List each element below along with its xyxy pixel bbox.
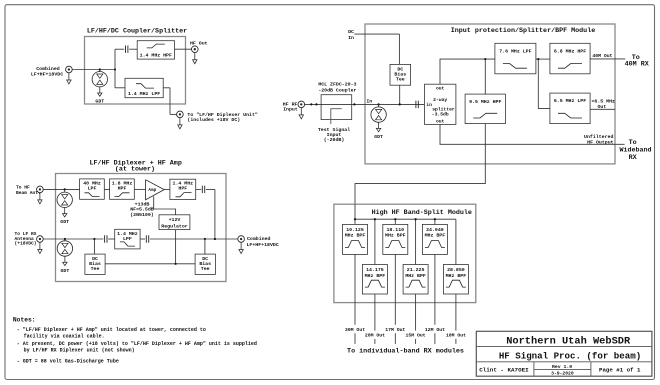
- svg-text:-20dB Coupler: -20dB Coupler: [318, 88, 356, 94]
- svg-text:NF=5.5dB: NF=5.5dB: [130, 207, 154, 213]
- svg-text:LF+HF+18VDC: LF+HF+18VDC: [247, 242, 279, 248]
- svg-text:Input: Input: [283, 106, 298, 112]
- svg-text:6.5 MHz LPF: 6.5 MHz LPF: [554, 98, 586, 104]
- svg-text:GDT: GDT: [60, 219, 69, 225]
- svg-text:out: out: [436, 85, 445, 91]
- svg-text:Unfiltered: Unfiltered: [584, 134, 613, 140]
- svg-text:MHz BPF: MHz BPF: [365, 273, 386, 279]
- svg-text:+12V: +12V: [169, 217, 181, 223]
- svg-text:Rev 1.0: Rev 1.0: [552, 364, 572, 370]
- svg-text:facility via coaxial cable.: facility via coaxial cable.: [24, 334, 105, 340]
- svg-text:HF Out: HF Out: [190, 40, 208, 46]
- svg-text:To individual-band RX modules: To individual-band RX modules: [347, 348, 464, 356]
- svg-text:RX: RX: [629, 154, 638, 162]
- svg-text:Amp: Amp: [148, 188, 156, 193]
- svg-text:(includes +18V DC): (includes +18V DC): [187, 117, 240, 123]
- svg-text:Combined: Combined: [36, 66, 60, 72]
- svg-text:LPF: LPF: [123, 236, 132, 242]
- svg-text:+13dB: +13dB: [135, 201, 150, 207]
- svg-text:21.225: 21.225: [407, 267, 425, 273]
- svg-text:out: out: [436, 119, 445, 125]
- svg-text:Combined: Combined: [247, 236, 271, 242]
- svg-text:7.6 MHz LPF: 7.6 MHz LPF: [499, 48, 531, 54]
- svg-text:Tee: Tee: [201, 266, 210, 272]
- svg-text:Input protection/Splitter/BPF: Input protection/Splitter/BPF Module: [451, 27, 595, 35]
- svg-text:Tee: Tee: [396, 76, 405, 82]
- svg-text:MHz BPF: MHz BPF: [405, 273, 426, 279]
- svg-text:In: In: [366, 99, 372, 105]
- svg-text:(2N5109): (2N5109): [130, 212, 154, 218]
- svg-text:(at tower): (at tower): [115, 166, 155, 174]
- svg-text:MHz BPF: MHz BPF: [446, 273, 467, 279]
- svg-text:Regulator: Regulator: [161, 223, 187, 229]
- svg-text:-3.5db: -3.5db: [432, 112, 449, 118]
- svg-text:(+18VDC): (+18VDC): [15, 241, 37, 247]
- svg-text:18.110: 18.110: [386, 227, 404, 233]
- svg-text:12M Out: 12M Out: [425, 327, 445, 333]
- svg-text:DC: DC: [348, 29, 354, 35]
- svg-text:LF/HF/DC Coupler/Splitter: LF/HF/DC Coupler/Splitter: [87, 27, 187, 35]
- svg-text:2-way: 2-way: [433, 97, 447, 103]
- svg-text:MHz BPF: MHz BPF: [425, 233, 446, 239]
- svg-text:Northern Utah WebSDR: Northern Utah WebSDR: [506, 336, 631, 348]
- svg-text:- At present, DC power (+18 vo: - At present, DC power (+18 volts) to "L…: [17, 341, 257, 347]
- svg-text:by LF/HF RX Diplexer unit (not: by LF/HF RX Diplexer unit (not shown): [24, 348, 135, 354]
- svg-text:splitter: splitter: [432, 106, 455, 112]
- svg-text:To HF: To HF: [16, 185, 30, 191]
- svg-text:- GDT = 88 volt Gas-Discharge: - GDT = 88 volt Gas-Discharge Tube: [17, 359, 119, 365]
- svg-text:24.940: 24.940: [426, 227, 444, 233]
- svg-text:10M Out: 10M Out: [446, 333, 466, 339]
- svg-text:- "LF/HF Diplexer + HF Amp" un: - "LF/HF Diplexer + HF Amp" unit located…: [17, 327, 206, 333]
- svg-text:LF+HF+18VDC: LF+HF+18VDC: [31, 72, 63, 78]
- svg-text:40M Out: 40M Out: [592, 53, 612, 59]
- svg-text:3-9-2020: 3-9-2020: [551, 370, 574, 376]
- svg-text:GDT: GDT: [95, 99, 104, 105]
- svg-text:1.4 MHz HPF: 1.4 MHz HPF: [140, 53, 172, 59]
- svg-text:MHz BPF: MHz BPF: [345, 233, 366, 239]
- svg-text:30M Out: 30M Out: [345, 327, 365, 333]
- svg-text:28.850: 28.850: [447, 267, 465, 273]
- svg-text:GDT: GDT: [60, 268, 69, 274]
- svg-text:20M Out: 20M Out: [365, 333, 385, 339]
- svg-text:40M RX: 40M RX: [625, 61, 650, 69]
- svg-text:Tee: Tee: [91, 266, 100, 272]
- svg-text:HF Output: HF Output: [587, 139, 613, 145]
- svg-text:<6.5 MHz: <6.5 MHz: [592, 99, 616, 105]
- svg-text:in: in: [426, 102, 432, 108]
- svg-text:Clint - KA7OEI: Clint - KA7OEI: [479, 366, 529, 373]
- svg-text:HPF: HPF: [178, 186, 187, 192]
- svg-text:High HF Band-Split Module: High HF Band-Split Module: [372, 209, 472, 217]
- svg-text:In: In: [348, 35, 354, 41]
- svg-text:17M Out: 17M Out: [385, 327, 405, 333]
- svg-text:GDT: GDT: [374, 134, 383, 140]
- svg-text:HF Signal Proc. (for beam): HF Signal Proc. (for beam): [499, 351, 641, 362]
- svg-text:LPF: LPF: [88, 185, 97, 191]
- svg-text:1.4 MHz LPF: 1.4 MHz LPF: [128, 91, 160, 97]
- svg-text:Notes:: Notes:: [13, 316, 36, 323]
- svg-text:6.8 MHz HPF: 6.8 MHz HPF: [554, 48, 586, 54]
- svg-text:MCL ZFDC-20-3: MCL ZFDC-20-3: [318, 82, 356, 88]
- svg-text:9.5 MHz HPF: 9.5 MHz HPF: [469, 99, 501, 105]
- svg-text:To "LF/HF Diplexer Unit": To "LF/HF Diplexer Unit": [187, 112, 258, 118]
- svg-text:HPF: HPF: [118, 185, 127, 191]
- svg-text:Beam Ant.: Beam Ant.: [16, 190, 41, 196]
- svg-text:Page #1 of 1: Page #1 of 1: [599, 366, 641, 373]
- svg-text:15M Out: 15M Out: [406, 333, 426, 339]
- svg-text:Out: Out: [598, 104, 607, 110]
- svg-text:10.125: 10.125: [346, 227, 364, 233]
- svg-text:(-20dB): (-20dB): [324, 137, 345, 143]
- svg-text:14.175: 14.175: [366, 267, 384, 273]
- svg-text:MHz BPF: MHz BPF: [385, 233, 406, 239]
